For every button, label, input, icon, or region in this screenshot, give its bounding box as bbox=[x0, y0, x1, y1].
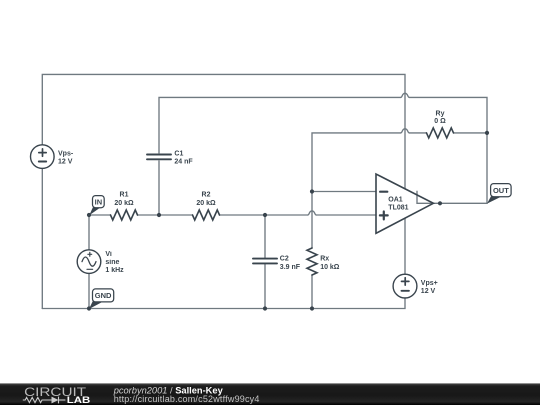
svg-text:0 Ω: 0 Ω bbox=[434, 118, 446, 125]
svg-text:20 kΩ: 20 kΩ bbox=[196, 200, 216, 207]
CircuitLab logo bbox=[23, 386, 90, 405]
wire C2 stubs bbox=[264, 215, 266, 309]
junction C1 bottom bbox=[157, 213, 161, 217]
voltage source Vps- bbox=[31, 145, 55, 169]
svg-text:12 V: 12 V bbox=[421, 288, 436, 295]
label Vps- value bbox=[58, 151, 74, 166]
svg-text:10 kΩ: 10 kΩ bbox=[320, 264, 340, 271]
wire op-amp output elbow bbox=[417, 191, 433, 203]
wire Vi source stubs bbox=[88, 215, 90, 309]
svg-text:IN: IN bbox=[95, 197, 103, 206]
wire Rx vertical through hop to ground bbox=[311, 192, 313, 309]
junction C2 bottom bbox=[263, 306, 267, 310]
label C1 value bbox=[174, 151, 193, 166]
wire main signal row IN to non-inverting input bbox=[89, 211, 376, 215]
label Ry value bbox=[434, 110, 446, 125]
wire C1 bottom to mid node bbox=[158, 161, 160, 215]
resistor R2 bbox=[193, 210, 220, 220]
node OUT flag bbox=[487, 184, 511, 204]
svg-text:GND: GND bbox=[95, 291, 112, 300]
junction Rx bottom bbox=[310, 306, 314, 310]
wire output node to feedback corner bbox=[433, 133, 487, 203]
svg-text:Vps-: Vps- bbox=[58, 151, 74, 158]
svg-text:R1: R1 bbox=[120, 192, 129, 199]
wire Ry feedback to inverting node bbox=[312, 129, 487, 192]
wire Vps+ top to op-amp V- pin bbox=[404, 218, 406, 274]
capacitor C1 bbox=[147, 155, 171, 160]
wire top rail from Vps- top to op-amp V+ pin bbox=[42, 74, 405, 188]
svg-text:C1: C1 bbox=[174, 151, 183, 158]
junction inverting node bbox=[310, 189, 314, 193]
svg-text:24 nF: 24 nF bbox=[174, 159, 193, 166]
svg-text:1 kHz: 1 kHz bbox=[105, 267, 124, 274]
svg-text:http://circuitlab.com/c52wtffw: http://circuitlab.com/c52wtffw99cy4 bbox=[114, 394, 260, 404]
svg-text:R2: R2 bbox=[202, 192, 211, 199]
attribution text bbox=[113, 385, 260, 404]
junction feedback corner bbox=[485, 131, 489, 135]
label C2 value bbox=[280, 255, 301, 271]
junction C2 top bbox=[263, 213, 267, 217]
resistor Ry bbox=[427, 128, 454, 138]
voltage source Vi sine bbox=[77, 250, 101, 274]
svg-text:sine: sine bbox=[105, 259, 119, 266]
junction GND node bbox=[87, 306, 91, 310]
svg-text:OUT: OUT bbox=[493, 186, 509, 195]
resistor Rx bbox=[307, 248, 317, 275]
node GND flag bbox=[89, 289, 114, 309]
node IN flag bbox=[89, 196, 104, 216]
wire left rail Vps- bottom to ground rail bbox=[41, 168, 43, 308]
label R2 value bbox=[196, 192, 216, 207]
label Vi value bbox=[105, 251, 124, 274]
svg-text:TL081: TL081 bbox=[388, 205, 408, 212]
op-amp OA1 bbox=[376, 174, 433, 233]
junction IN node bbox=[87, 213, 91, 217]
voltage source Vps+ bbox=[393, 274, 417, 298]
svg-text:20 kΩ: 20 kΩ bbox=[114, 200, 134, 207]
capacitor C2 bbox=[253, 259, 277, 264]
junction output node bbox=[438, 201, 442, 205]
label R1 value bbox=[114, 192, 134, 207]
wire ground rail bottom bbox=[42, 298, 405, 309]
svg-text:Vps+: Vps+ bbox=[421, 280, 438, 287]
svg-text:3.9 nF: 3.9 nF bbox=[280, 264, 301, 271]
svg-text:Vi: Vi bbox=[105, 251, 112, 258]
resistor R1 bbox=[111, 210, 138, 220]
wire C1 feedback top loop bbox=[159, 93, 487, 153]
label Vps+ value bbox=[421, 280, 438, 295]
svg-text:C2: C2 bbox=[280, 255, 289, 262]
svg-text:Ry: Ry bbox=[436, 110, 445, 117]
svg-text:LAB: LAB bbox=[67, 396, 90, 405]
svg-text:OA1: OA1 bbox=[388, 197, 403, 204]
label OA1 TL081 bbox=[388, 197, 408, 212]
svg-text:12 V: 12 V bbox=[58, 159, 73, 166]
svg-text:Rx: Rx bbox=[320, 255, 329, 262]
footer bar bbox=[0, 383, 540, 405]
label Rx value bbox=[320, 255, 340, 271]
wire inverting input bbox=[312, 191, 376, 193]
